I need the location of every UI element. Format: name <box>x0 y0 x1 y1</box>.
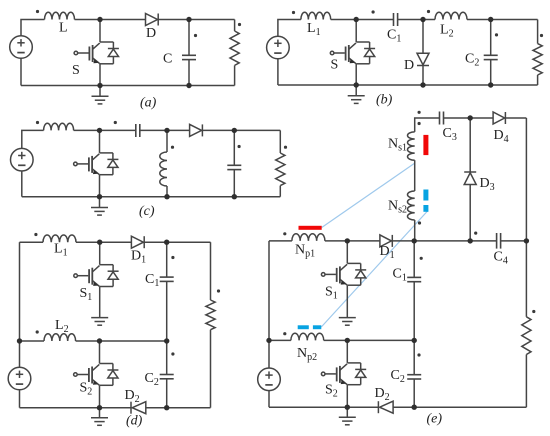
svg-text:D4: D4 <box>494 128 509 145</box>
svg-text:C1: C1 <box>387 28 401 45</box>
diode D2 triangle pointing left (e) <box>380 401 394 413</box>
capacitor C <box>182 55 196 59</box>
wire row2 from left rail to Np2 (e) <box>269 339 291 341</box>
node top of S2 (e) <box>345 338 350 343</box>
svg-text:C2: C2 <box>465 52 479 69</box>
svg-text:C1: C1 <box>145 272 159 289</box>
svg-text:S2: S2 <box>325 383 338 400</box>
svg-text:D: D <box>404 58 414 73</box>
wire D2 to bottom rail right (e) <box>393 406 526 408</box>
capacitor C2 bottom lead (d) <box>166 379 168 408</box>
wire L1 to capacitor C1 <box>331 19 394 21</box>
wire bottom rail left of D2 (e) <box>269 406 378 408</box>
node bottom of S2 (e) <box>345 405 350 410</box>
blue dashed coupling bar at Np2 (e) <box>298 325 309 329</box>
node Ns2 bottom / C1 top (e) <box>412 238 417 243</box>
capacitor C4 (series) (e) <box>497 233 501 249</box>
wire bottom rail <box>21 85 235 87</box>
capacitor C1 bottom lead (d) <box>166 281 168 341</box>
resistor load (c) <box>276 153 285 186</box>
capacitor C2 (d) <box>160 375 174 379</box>
wire Np2 to C1 bottom node (e) <box>324 339 415 341</box>
polarity star at Np1 (e) <box>283 232 286 235</box>
wire D1 to C1 node (e) <box>392 240 470 242</box>
resistor load (b) <box>533 44 542 75</box>
wire Np1 to D1 (e) <box>325 240 380 242</box>
node bottom of S2 (d) <box>97 405 102 410</box>
diode D3 branch top lead (e) <box>469 118 471 172</box>
polarity star at Np2 (e) <box>283 332 286 335</box>
wire emitter to bottom rail (b) <box>355 64 357 85</box>
wire S2 emitter to bottom rail (e) <box>346 385 348 408</box>
node C1-L2-D junction (b) <box>420 17 425 22</box>
polarity star at C2 (d) <box>171 352 174 355</box>
source V (c) <box>10 148 33 171</box>
polarity star at C1 (d) <box>171 256 174 259</box>
node bottom of C2 (b) <box>488 82 493 87</box>
node L2-C2 junction (b) <box>488 17 493 22</box>
wire top-left corner to inductor L1 (d) <box>20 241 44 243</box>
node top of switch (c) <box>97 128 102 133</box>
secondary branch top corner to C3 (e) <box>415 118 440 132</box>
diode D2 cathode bar (e) <box>377 401 379 413</box>
ground under S1 (d) <box>91 318 108 326</box>
inductor Np1 (e) <box>292 234 325 241</box>
inductor L1 (d) <box>43 235 76 242</box>
coupling line B Np2 to Ns2 <box>321 211 428 328</box>
polarity star at C2 (b) <box>495 33 498 36</box>
capacitor C1 top lead (e) <box>413 241 415 278</box>
polarity star near C4 (e) <box>474 232 477 235</box>
inductor L <box>45 12 75 19</box>
svg-text:C4: C4 <box>494 250 508 267</box>
wire top-left from source to inductor <box>22 130 44 148</box>
wire S1 emitter down to ground (d) <box>99 287 101 318</box>
svg-text:L2: L2 <box>55 318 69 335</box>
node cap-inductor junction (c) <box>164 128 169 133</box>
polarity star at C1 (e) <box>420 257 423 260</box>
wire S1 emitter down to ground (e) <box>346 285 348 317</box>
diode D4 (e) <box>493 112 505 124</box>
diode D3 bottom lead (e) <box>469 185 471 241</box>
svg-text:(c): (c) <box>139 204 155 219</box>
diode D2 triangle pointing left (d) <box>132 402 146 414</box>
wire cap to diode (c) <box>140 129 190 131</box>
inductor L1 <box>301 12 331 19</box>
node top of S2 (d) <box>97 338 102 343</box>
node D3 top (e) <box>468 115 473 120</box>
inductor Np2 (e) <box>291 333 324 340</box>
polarity star at L2 (d) <box>36 330 39 333</box>
capacitor C1 (d) <box>160 277 174 281</box>
svg-text:(b): (b) <box>376 93 393 108</box>
svg-text:Ns1: Ns1 <box>388 137 407 154</box>
wire bottom rail (d) <box>20 407 132 409</box>
polarity star at vertical inductor (c) <box>171 146 174 149</box>
node D3 bottom (e) <box>468 238 473 243</box>
svg-text:S: S <box>331 58 339 73</box>
svg-text:L1: L1 <box>54 242 68 259</box>
polarity star at Ns1 top (e) <box>418 122 421 125</box>
wire resistor bottom (c) <box>279 186 281 197</box>
diode D1 (e) <box>380 235 392 247</box>
switch S2 (d) IGBT <box>74 341 119 385</box>
svg-text:C1: C1 <box>393 267 407 284</box>
capacitor C2 bottom lead (e) <box>413 379 415 407</box>
svg-text:L2: L2 <box>440 23 454 40</box>
polarity star at L1 (b) <box>292 11 295 14</box>
svg-text:D2: D2 <box>375 386 390 403</box>
wire diode to right corner (c) <box>202 129 280 131</box>
switch S (b) IGBT <box>330 20 375 64</box>
vertical inductor top lead (c) <box>166 130 168 152</box>
node bottom of diode (b) <box>420 82 425 87</box>
capacitor C2 top lead (e) <box>413 340 415 374</box>
polarity star at R (d) <box>217 289 220 292</box>
node C4 right rail (e) <box>524 238 529 243</box>
polarity star at output cap (c) <box>238 145 241 148</box>
svg-text:C3: C3 <box>443 126 457 143</box>
wire D2 to C2 node (d) <box>146 407 211 409</box>
polarity star right of switch node (c) <box>114 121 117 124</box>
red coupling bar at Np1 (e) <box>299 226 322 230</box>
left rail row2 to source (e) <box>268 340 270 368</box>
node C1-C2 junction (e) <box>412 338 417 343</box>
wire emitter to bottom rail (c) <box>99 175 101 197</box>
svg-text:L1: L1 <box>307 21 321 38</box>
node left rail middle row (d) <box>17 338 22 343</box>
svg-text:S1: S1 <box>80 286 93 303</box>
ground (b) <box>355 85 357 96</box>
wire source bottom lead (e) <box>268 391 270 408</box>
node bottom of capacitor (a) <box>186 83 191 88</box>
node bottom of switch (c) <box>97 194 102 199</box>
inductor Ns2 (e) <box>407 191 414 220</box>
svg-text:D1: D1 <box>131 249 146 266</box>
node top of switch (a) <box>97 17 102 22</box>
wire source bottom lead (b) <box>277 59 279 85</box>
ground (c) <box>99 197 101 208</box>
node bottom of switch (a) <box>97 83 102 88</box>
wire inductor to diode D anode <box>75 19 146 21</box>
svg-text:(e): (e) <box>427 412 443 427</box>
source V (d) <box>8 367 31 390</box>
svg-text:Np1: Np1 <box>295 243 315 260</box>
svg-text:Ns2: Ns2 <box>388 199 407 216</box>
wire right rail to resistor (d) <box>210 242 212 300</box>
output capacitor bottom lead (c) <box>233 170 235 197</box>
node top of C1 (d) <box>164 240 169 245</box>
svg-text:D2: D2 <box>125 388 140 405</box>
svg-text:S2: S2 <box>80 381 93 398</box>
wire C1 node to C4 (e) <box>470 240 496 242</box>
inductor L2 <box>435 12 467 19</box>
node top of switch (b) <box>354 17 359 22</box>
wire C3 to D4 (e) <box>444 117 494 119</box>
diode D3 pointing up (e) <box>464 171 476 173</box>
wire Ns2 down to row1 (e) <box>414 220 416 241</box>
node bottom of output cap (c) <box>232 194 237 199</box>
resistor load <box>230 31 239 65</box>
inductor L2 (d) <box>44 334 76 341</box>
diode (c) <box>190 124 202 136</box>
input inductor (c) <box>44 123 74 130</box>
node left rail row2 (e) <box>266 338 271 343</box>
switch S2 (e) IGBT <box>321 340 366 384</box>
resistor load (e) <box>522 317 531 355</box>
polarity star at R (e) <box>532 310 535 313</box>
source V (e) <box>258 368 281 391</box>
wire right side down to resistor (c) <box>279 130 281 153</box>
red coupling bar at Ns1 (e) <box>423 135 428 155</box>
right rail top section (e) <box>525 118 527 241</box>
wire resistor bottom to bottom rail (d) <box>210 330 212 408</box>
polarity star at R (b) <box>540 34 543 37</box>
node bottom of vertical inductor (c) <box>164 194 169 199</box>
svg-text:(d): (d) <box>126 414 143 429</box>
wire diode to right corner <box>158 19 234 21</box>
wire right side down to resistor <box>537 20 539 44</box>
polarity star at L2 (b) <box>427 10 430 13</box>
capacitor C3 (series) (e) <box>440 112 444 125</box>
svg-text:Np2: Np2 <box>297 346 317 363</box>
capacitor C top lead <box>188 20 190 56</box>
wire top-left from source to inductor L <box>21 20 45 36</box>
wire C4 to right rail (e) <box>501 240 527 242</box>
capacitor C2 <box>484 55 498 59</box>
vertical inductor bottom lead (c) <box>166 186 168 197</box>
wire D1 to right corner (d) <box>144 241 210 243</box>
node bottom of C2 (d) <box>164 405 169 410</box>
polarity star right of switch node (b) <box>372 10 375 13</box>
inductor Ns1 (e) <box>408 132 415 160</box>
wire right side top lead of load resistor <box>234 20 236 32</box>
left rail row1 to row2 (e) <box>268 241 270 341</box>
wire source bottom lead <box>20 58 22 85</box>
vertical inductor (c) <box>160 152 167 186</box>
right rail down to resistor (e) <box>525 241 527 317</box>
svg-text:L: L <box>59 21 68 36</box>
left rail to source (d) <box>19 341 21 367</box>
capacitor C1 bottom lead (e) <box>413 282 415 341</box>
wire emitter to bottom rail (a) <box>99 64 101 86</box>
polarity star at L1 (d) <box>34 233 37 236</box>
svg-text:C2: C2 <box>145 371 159 388</box>
switch S1 (d) IGBT <box>74 242 119 286</box>
wire middle rail L2 row (d) <box>20 340 45 342</box>
ground under S1 (e) <box>339 318 356 326</box>
diode D <box>146 14 158 26</box>
wire source bottom lead (c) <box>21 171 23 197</box>
ground bottom (e) <box>346 407 348 417</box>
switch S1 (e) IGBT <box>321 241 366 285</box>
polarity star above secondary corner (e) <box>418 111 421 114</box>
switch IGBT (c) <box>74 130 119 174</box>
wire bottom rail (b) <box>278 84 538 86</box>
diode D1 (d) <box>131 236 143 248</box>
node bottom of switch (b) <box>354 82 359 87</box>
node top of S1 (d) <box>97 240 102 245</box>
wire resistor bottom to bottom rail (e) <box>525 355 527 408</box>
polarity star at C (a) <box>194 34 197 37</box>
capacitor C2 top lead <box>490 20 492 56</box>
wire row1 left corner to Np1 (e) <box>269 240 292 242</box>
output capacitor (c) <box>227 165 241 169</box>
source V (a) <box>10 36 33 59</box>
wire D4 to right rail top corner (e) <box>505 117 526 119</box>
wire L2 to C1/C2 junction (d) <box>76 340 167 342</box>
node C1-C2 junction (d) <box>164 338 169 343</box>
capacitor C1 top lead (d) <box>166 242 168 277</box>
capacitor C bottom lead <box>188 60 190 86</box>
svg-text:D: D <box>146 26 156 41</box>
svg-text:C: C <box>163 52 172 67</box>
resistor load (d) <box>206 300 215 330</box>
wire top-left from source to inductor L1 <box>278 20 301 37</box>
capacitor C1 (series) <box>394 13 398 26</box>
capacitor C2 (e) <box>407 375 421 379</box>
polarity star at C2 (e) <box>417 353 420 356</box>
series capacitor (c) <box>136 124 140 137</box>
ground bottom (d) <box>99 408 101 418</box>
left rail top section (d) <box>19 242 21 341</box>
diode D (pointing down) <box>417 53 429 65</box>
capacitor C1 (e) <box>407 277 421 281</box>
polarity star below Ns2 (e) <box>418 221 421 224</box>
node top of S1 (e) <box>345 238 350 243</box>
wire S2 emitter to bottom rail (d) <box>99 385 101 407</box>
node diode-capacitor junction (c) <box>232 128 237 133</box>
output capacitor top lead (c) <box>233 130 235 165</box>
node bottom of C2 (e) <box>412 405 417 410</box>
polarity star at R (a) <box>238 23 241 26</box>
blue dashed coupling bar at Ns2 (e) <box>423 190 428 201</box>
capacitor C2 top lead (d) <box>166 341 168 375</box>
switch S (a) IGBT <box>74 20 119 64</box>
wire C1 to L2 <box>398 19 435 21</box>
wire source bottom lead (d) <box>19 390 21 408</box>
capacitor C2 bottom lead <box>490 60 492 85</box>
polarity star at input inductor (c) <box>36 121 39 124</box>
wire bottom rail (c) <box>22 196 281 198</box>
svg-text:S1: S1 <box>325 285 338 302</box>
diode D top lead (b) <box>422 20 424 54</box>
wire resistor bottom lead <box>234 65 236 85</box>
polarity star at R (c) <box>284 146 287 149</box>
wire Ns1 to Ns2 (e) <box>414 160 416 191</box>
svg-text:D3: D3 <box>480 176 495 193</box>
polarity star at L (a) <box>36 10 39 13</box>
svg-text:S: S <box>72 63 80 78</box>
wire L2 to right corner <box>467 19 538 21</box>
ground (a) <box>99 86 101 97</box>
wire L1 to diode D1 (d) <box>76 241 131 243</box>
svg-text:(a): (a) <box>140 96 157 111</box>
node top of capacitor (a) <box>186 17 191 22</box>
coupling line A Np1 to Ns1 <box>322 164 415 228</box>
wire inductor to series capacitor <box>74 129 136 131</box>
diode D2 cathode bar (d) <box>130 402 132 414</box>
source V (b) <box>267 36 290 59</box>
svg-text:C2: C2 <box>391 368 405 385</box>
diode D bottom lead <box>422 66 424 86</box>
wire resistor bottom <box>537 75 539 85</box>
